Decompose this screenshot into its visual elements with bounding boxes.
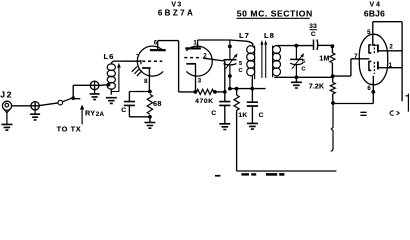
svg-text:33: 33 [309,23,317,30]
cut-off label C marks [390,111,393,115]
node V3a cathode junction [148,90,152,94]
svg-text:C: C [259,112,264,119]
V4 grid 1 (dashed, top) [373,44,375,54]
svg-text:5: 5 [239,61,242,67]
resistor 1K (B+ dropping) [236,89,238,96]
node L8 ground tap [295,75,299,79]
wire cathode return downlead [331,103,333,151]
ground at feedthrough capacitor [30,114,40,120]
node trimmer 2 top [295,44,299,48]
resistor 470K (grid bias) [197,89,214,94]
tuning core lines of L7/L8 [262,44,266,78]
node trimmer 1 bottom [228,74,232,78]
grid hatch marks V3a [132,66,142,76]
node L6 tap [107,83,111,87]
relay RY2A contact stub to TX [73,98,80,100]
triode V3b plate (pin 1) [185,47,201,49]
ground at feedthrough 2 [90,94,100,100]
pentode V4 cathode lead (pin 6) [372,76,374,92]
pentode V4 plate lead (pin 5) [372,22,374,46]
relay RY2A switch arm [63,98,73,102]
svg-text:L6: L6 [104,52,115,61]
svg-text:7: 7 [354,54,358,60]
wire pin 2 to B+ rail [378,50,402,52]
svg-text:C: C [211,110,216,117]
slug-tuning arrow of L6 [111,63,120,92]
node V3b cathode junction [194,90,198,94]
resistor 1M (grid leak) [331,46,333,53]
triode V3b cathode (pin 3) [186,63,196,65]
svg-text:C: C [301,66,305,72]
svg-text:50 MC. SECTION: 50 MC. SECTION [237,9,313,19]
ground at L8 [295,77,297,82]
node trimmer 1 top [228,45,232,49]
svg-text:1K: 1K [238,112,247,119]
svg-text:7: 7 [136,55,140,61]
svg-text:7.2K: 7.2K [309,83,324,90]
V4 cathode bar (top) [369,44,371,53]
feedthrough capacitor C (antenna line) [31,101,39,114]
svg-text:L8: L8 [264,31,275,40]
svg-text:C: C [239,68,243,74]
wire relay common riser [72,85,74,98]
inductor L7 [247,46,255,89]
svg-text:5: 5 [302,59,305,65]
svg-text:6: 6 [154,40,158,46]
wire 470K to grid riser [215,91,225,93]
svg-text:J2: J2 [0,89,13,99]
svg-text:C: C [311,31,316,38]
wire L8 bottom bus [274,76,333,77]
trimmer capacitor (across L7) [229,40,231,59]
wire feedthrough to relay contact [39,103,58,106]
wire coupling cap to 1M [318,44,333,46]
triode V3a cathode (pin 8) [142,67,151,69]
wire pin 6 down [372,92,374,104]
ground at V3a cathode network [149,117,151,122]
svg-text:1: 1 [193,41,197,47]
wire C bottom to resistor bottom [129,116,150,118]
svg-text:L7: L7 [239,31,250,40]
wire cathode to C bypass [129,91,150,93]
relay contact RY2A (fixed contact) [58,100,63,105]
triode V3a grid (pin 7) [142,60,162,62]
ground at J2 [1,124,12,130]
wire riser to feedthrough 2 [73,84,99,86]
inductor L6 [107,61,141,95]
wire V3a plate to V3b cathode (cascode link) [158,41,194,92]
svg-text:C: C [121,107,126,114]
svg-text:6: 6 [367,86,371,92]
svg-text:3: 3 [198,79,202,85]
triode V3a plate (pin 6) [150,49,166,51]
svg-text:2A: 2A [96,111,105,118]
V4 screen grid (pin 2) bar [377,44,379,52]
trimmer capacitor (across L8) [295,46,297,60]
V4 suppressor bar (bottom) [377,61,379,69]
ground at B+ bypass C [247,123,258,129]
wire L8 top to coupling capacitor [277,45,313,47]
ground at L6 [106,98,117,104]
arrow TO TX [80,105,84,125]
wire V3b plate to L7 top [198,40,254,45]
svg-text:2: 2 [389,44,393,50]
triode V3b grid (pin 2) [184,57,202,59]
resistor 7.2K (V4 cathode bias) [332,76,334,82]
wire V3b grid to bias divider [203,58,225,92]
wire V4 plate to output rail [373,22,402,102]
capacitor 33 C (coupling) [313,40,315,51]
wire junction to V4 grid pin 7 [333,59,370,76]
node grid bypass junction [223,90,227,94]
wire junction to V4 pin 6 [333,103,373,105]
svg-text:470K: 470K [195,98,213,105]
triode V3a envelope [137,46,163,76]
svg-text:5: 5 [367,30,371,36]
wire pin 1 to B+ rail [378,67,402,69]
node V4 pin 6 [371,90,375,94]
feedthrough capacitor C (grid line) [90,81,99,94]
capacitor C (B+ bypass) [247,102,258,106]
V4 cathode bar (bottom) [369,61,371,71]
capacitor C (V3b grid bypass) [219,102,230,106]
V4 grid 3 (dashed, bottom) [373,62,375,74]
node 1M top [331,44,335,48]
triode V3b envelope [186,46,212,76]
node tank bus left corner [228,87,232,91]
cut-off text at bottom edge [215,173,284,176]
capacitor C (V3a cathode bypass) [124,102,135,106]
node 470K right end [213,90,217,94]
cut-off capacitor marks [360,112,366,115]
resistor 68 (V3a cathode) [147,94,152,114]
svg-text:V4: V4 [370,1,382,8]
wire feedthrough 2 to L6 tap [99,84,107,87]
svg-text:6BJ6: 6BJ6 [364,8,385,18]
node B+ tap on tank bus [235,87,239,91]
wire B+ bottom bus [237,170,337,172]
node cathode return junction [331,101,335,105]
svg-text:1M: 1M [319,55,329,62]
node cathode network bottom [148,115,152,119]
svg-text:RY: RY [85,109,95,118]
svg-text:V3: V3 [171,1,182,8]
svg-text:68: 68 [153,99,162,108]
connector J2 (coax antenna jack) [2,101,11,124]
pentode V4 envelope [359,34,387,85]
inductor L8 [273,46,281,78]
svg-text:6BZ7A: 6BZ7A [158,9,195,18]
right edge stub [405,94,408,112]
node grid divider junction [331,74,335,78]
svg-text:8: 8 [144,79,148,85]
svg-text:TO TX: TO TX [57,124,82,133]
node relay common [71,96,75,100]
wire J2 to feedthrough capacitor [12,105,40,107]
node L7 bottom / bypass C junction [250,87,254,91]
wire L7 tank bottom bus [230,88,266,90]
ground at grid bypass C [219,124,230,130]
svg-text:1: 1 [389,63,393,69]
